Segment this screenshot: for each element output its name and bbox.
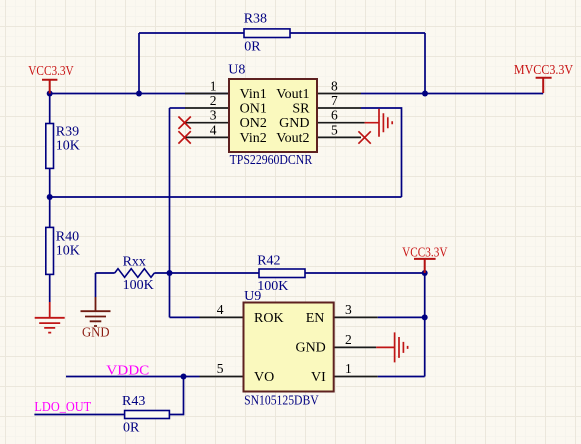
svg-text:1: 1 <box>345 361 352 376</box>
pin U8.2 <box>185 107 229 109</box>
svg-text:6: 6 <box>331 108 338 123</box>
svg-text:R43: R43 <box>122 394 145 409</box>
wire EN to rail <box>378 316 425 318</box>
resistor R39 <box>46 124 54 169</box>
svg-text:SR: SR <box>292 101 310 116</box>
wire pin8 to MVCC3.3V <box>361 93 543 95</box>
svg-text:0R: 0R <box>123 421 140 436</box>
pin U9.4 <box>200 316 244 318</box>
wire R38 right vertical <box>424 33 426 94</box>
svg-text:4: 4 <box>210 122 217 137</box>
wire R38 left vertical <box>138 33 140 94</box>
svg-text:2: 2 <box>210 93 217 108</box>
wire left rail vertical <box>49 94 51 303</box>
pin U9.2 <box>334 346 377 348</box>
svg-text:VI: VI <box>311 370 326 385</box>
svg-text:Rxx: Rxx <box>123 255 146 270</box>
svg-text:Vin2: Vin2 <box>240 131 267 146</box>
resistor R43 <box>125 411 170 419</box>
resistor R38 <box>244 29 290 38</box>
junction node R38 left <box>136 91 142 97</box>
svg-text:1: 1 <box>210 79 217 94</box>
svg-text:U8: U8 <box>228 63 245 78</box>
power port VCC3.3V right bar <box>414 259 436 273</box>
svg-text:7: 7 <box>331 93 338 108</box>
power port MVCC3.3V bar <box>536 78 552 93</box>
svg-text:5: 5 <box>217 361 224 376</box>
pin U9.1 <box>334 376 378 378</box>
wire VI to rail <box>378 376 425 378</box>
junction node R38 right <box>422 91 428 97</box>
svg-text:VCC3.3V: VCC3.3V <box>402 246 447 261</box>
svg-text:TPS22960DCNR: TPS22960DCNR <box>230 153 313 168</box>
pin U9.3 <box>334 316 378 318</box>
svg-text:R40: R40 <box>56 230 79 245</box>
wire rail to ROK <box>170 316 200 318</box>
svg-text:VCC3.3V: VCC3.3V <box>28 64 73 79</box>
svg-text:U9: U9 <box>244 289 261 304</box>
svg-text:100K: 100K <box>123 278 154 293</box>
svg-text:ON1: ON1 <box>240 101 267 116</box>
svg-text:SN105125DBV: SN105125DBV <box>244 394 319 409</box>
svg-text:ON2: ON2 <box>240 116 267 131</box>
svg-text:Vout2: Vout2 <box>276 131 309 146</box>
junction node EN <box>422 314 428 320</box>
svg-text:VDDC: VDDC <box>106 364 149 379</box>
svg-text:10K: 10K <box>56 244 80 259</box>
op-amp U9 body <box>244 303 334 392</box>
resistor R42 <box>259 269 305 278</box>
svg-text:4: 4 <box>217 302 224 317</box>
svg-text:R42: R42 <box>257 254 280 269</box>
op-amp U8 body <box>229 79 317 152</box>
svg-text:GND: GND <box>295 341 325 356</box>
svg-text:Vout1: Vout1 <box>276 87 309 102</box>
power port VCC3.3V left bar <box>42 80 57 94</box>
junction node y197 <box>47 194 53 200</box>
junction node VDDC <box>181 374 187 380</box>
pin U8.5 <box>317 136 361 138</box>
ground at U8 pin6 <box>365 109 393 137</box>
svg-text:0R: 0R <box>244 40 261 55</box>
svg-text:R39: R39 <box>56 125 79 140</box>
svg-text:VO: VO <box>254 370 274 385</box>
wire LDO_OUT to R43 <box>34 414 124 416</box>
svg-text:10K: 10K <box>56 139 80 154</box>
svg-text:5: 5 <box>331 122 338 137</box>
wire Rxx gnd drop <box>95 273 97 297</box>
wire Rxx row <box>96 272 425 274</box>
resistor R40 <box>46 227 54 274</box>
wire top R38 horizontal <box>139 32 425 34</box>
svg-text:3: 3 <box>345 302 352 317</box>
pin U8.3 <box>185 122 229 124</box>
svg-text:GND: GND <box>82 326 110 341</box>
junction node Rxx R42 <box>167 270 173 276</box>
pin U8.1 <box>185 93 229 95</box>
no-connect X U8 pin4 <box>178 131 190 143</box>
wire horizontal y197 <box>50 196 402 198</box>
wire SR down <box>361 108 402 197</box>
wire right rail vertical <box>424 273 426 377</box>
svg-text:100K: 100K <box>257 279 288 294</box>
pin U8.4 <box>185 136 229 138</box>
svg-text:MVCC3.3V: MVCC3.3V <box>514 63 573 78</box>
wire VDDC drop to R43 <box>169 377 183 415</box>
no-connect X U8 pin5 <box>358 131 370 143</box>
wire VDDC to VO <box>66 376 200 378</box>
pin U9.5 <box>200 376 244 378</box>
ground GND Rxx <box>81 297 111 326</box>
wire ON1 to rail <box>170 107 186 109</box>
pin U8.6 <box>317 122 365 124</box>
svg-text:LDO_OUT: LDO_OUT <box>34 400 91 415</box>
svg-text:EN: EN <box>306 311 325 326</box>
pin U8.8 <box>317 93 361 95</box>
ground left rail <box>35 302 65 333</box>
svg-text:2: 2 <box>345 332 352 347</box>
svg-text:Vin1: Vin1 <box>240 87 267 102</box>
junction node VCC left <box>47 91 53 97</box>
resistor Rxx zigzag <box>115 269 155 278</box>
svg-text:8: 8 <box>331 79 338 94</box>
junction node VCC right <box>422 270 428 276</box>
svg-text:ROK: ROK <box>254 311 284 326</box>
ground at U9 pin2 <box>376 332 407 362</box>
svg-text:GND: GND <box>279 116 309 131</box>
no-connect X U8 pin3 <box>178 117 190 129</box>
wire middle rail vertical <box>169 108 171 317</box>
svg-text:R38: R38 <box>244 12 267 27</box>
wire VCC3.3V to U8 pin1 <box>50 93 229 95</box>
pin U8.7 <box>317 107 361 109</box>
svg-text:3: 3 <box>210 108 217 123</box>
